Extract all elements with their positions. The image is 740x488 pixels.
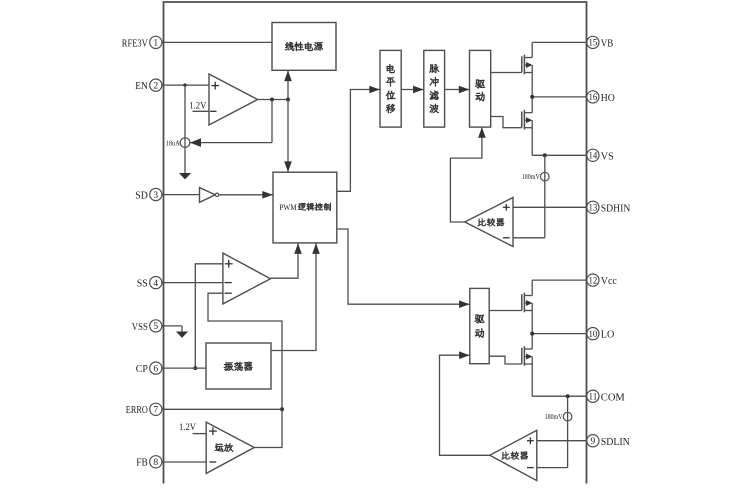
svg-text:16: 16 [589, 92, 598, 102]
svg-text:180mV: 180mV [522, 173, 540, 181]
svg-text:CP: CP [136, 363, 148, 375]
svg-text:8: 8 [153, 458, 158, 468]
svg-text:9: 9 [591, 437, 596, 447]
svg-text:VB: VB [601, 38, 614, 50]
svg-text:14: 14 [589, 151, 598, 161]
svg-text:5: 5 [153, 322, 158, 332]
svg-text:VSS: VSS [132, 321, 148, 333]
svg-text:VS: VS [601, 150, 614, 162]
svg-text:1.2V: 1.2V [189, 101, 206, 111]
svg-text:2: 2 [153, 81, 158, 91]
svg-text:11: 11 [589, 391, 598, 401]
svg-text:HO: HO [601, 92, 615, 104]
svg-text:SDHIN: SDHIN [601, 202, 631, 214]
svg-text:FB: FB [136, 457, 148, 469]
svg-text:10: 10 [589, 329, 598, 339]
svg-text:4: 4 [153, 279, 158, 289]
svg-text:LO: LO [601, 329, 615, 341]
svg-text:7: 7 [153, 406, 158, 416]
svg-text:Vcc: Vcc [601, 275, 617, 287]
svg-text:SDLIN: SDLIN [601, 436, 630, 448]
svg-text:180mV: 180mV [545, 413, 563, 421]
svg-text:EN: EN [135, 80, 148, 92]
svg-text:SS: SS [137, 278, 148, 290]
svg-text:1: 1 [153, 39, 158, 49]
svg-text:12: 12 [589, 275, 598, 285]
svg-text:18uA: 18uA [166, 139, 180, 147]
svg-text:13: 13 [589, 203, 598, 213]
svg-text:15: 15 [589, 38, 598, 48]
svg-text:6: 6 [153, 364, 158, 374]
svg-text:1.2V: 1.2V [179, 423, 196, 433]
svg-text:COM: COM [601, 391, 625, 403]
svg-text:SD: SD [135, 189, 148, 201]
svg-text:RFE3V: RFE3V [122, 37, 148, 49]
svg-text:PWM: PWM [279, 203, 297, 212]
svg-text:ERRO: ERRO [126, 404, 148, 416]
svg-text:3: 3 [153, 191, 158, 201]
